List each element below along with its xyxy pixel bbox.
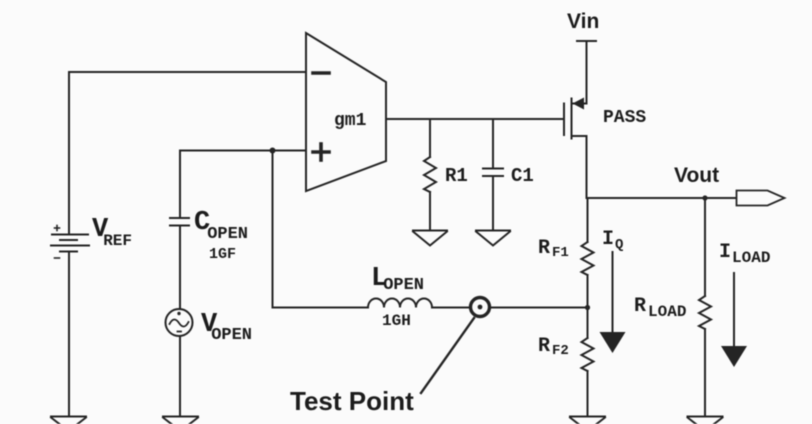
svg-text:1GH: 1GH — [382, 312, 411, 330]
wire op-amp output — [386, 118, 564, 120]
ground (R_F2) — [570, 417, 605, 424]
svg-text:C1: C1 — [511, 165, 534, 187]
current arrow I_Q — [600, 252, 626, 353]
ground (V_REF) — [51, 417, 86, 424]
wire R_LOAD to ground — [704, 329, 706, 416]
source V_OPEN — [166, 309, 193, 336]
svg-text:Test Point: Test Point — [290, 386, 414, 416]
wire R_F2 to ground — [587, 371, 589, 416]
wire junction down to L_OPEN row — [272, 151, 274, 308]
transistor Q PASS (PMOS) — [564, 98, 587, 199]
resistor R1 — [424, 157, 436, 192]
wire L_OPEN row left segment — [273, 307, 369, 309]
battery V_REF — [51, 226, 89, 259]
connector Vout — [737, 191, 785, 206]
svg-text:gm1: gm1 — [334, 111, 367, 131]
wire C_OPEN column upper — [179, 151, 181, 218]
wire test point to R_F divider — [490, 307, 588, 309]
svg-text:VOPEN: VOPEN — [201, 310, 252, 345]
wire C1 column upper — [492, 119, 494, 168]
svg-text:LOPEN: LOPEN — [371, 264, 424, 295]
svg-text:VREF: VREF — [92, 215, 132, 250]
svg-text:ILOAD: ILOAD — [719, 241, 770, 267]
svg-text:Vin: Vin — [567, 10, 599, 33]
svg-text:Vout: Vout — [674, 164, 719, 187]
wire L_OPEN to test point — [432, 307, 469, 309]
ground (C1) — [476, 231, 510, 246]
svg-text:RF2: RF2 — [538, 335, 569, 359]
inductor L_OPEN — [368, 299, 432, 308]
resistor R_F1 — [582, 242, 594, 275]
Vin terminal bar — [577, 40, 596, 42]
wire minus-input horizontal — [69, 71, 306, 73]
wire C_OPEN to V_OPEN — [179, 226, 181, 309]
svg-text:RF1: RF1 — [538, 237, 569, 261]
wire left vertical down to battery — [68, 72, 70, 234]
wire V_OPEN to ground — [179, 336, 181, 416]
node A junction dot on plus wire — [270, 148, 276, 154]
svg-text:RLOAD: RLOAD — [634, 295, 686, 321]
svg-text:1GF: 1GF — [209, 246, 236, 263]
wire C1 to ground — [492, 176, 494, 230]
current arrow I_LOAD — [721, 273, 747, 367]
test point circle — [471, 298, 490, 317]
op-amp minus sign — [313, 71, 329, 75]
wire R_F1 column upper — [587, 198, 589, 242]
ground (R1) — [413, 231, 447, 246]
ground (R_LOAD) — [688, 417, 723, 424]
wire Vout horizontal — [587, 197, 737, 199]
resistor R_F2 — [582, 338, 594, 371]
test point leader line — [421, 318, 474, 393]
wire plus-input horizontal — [180, 150, 306, 152]
svg-text:COPEN: COPEN — [194, 208, 248, 244]
op-amp U1 gm1 trapezoid — [306, 33, 386, 191]
wire R1 to ground — [429, 192, 431, 230]
wire R_LOAD column upper — [704, 198, 706, 296]
capacitor C_OPEN — [170, 218, 189, 226]
wire R1 column upper — [429, 119, 431, 157]
resistor R_LOAD — [699, 296, 711, 329]
ground (V_OPEN) — [163, 417, 198, 424]
capacitor C1 — [483, 169, 503, 177]
node Vout junction dot — [702, 195, 707, 200]
svg-text:PASS: PASS — [603, 108, 646, 128]
op-amp plus sign — [313, 144, 329, 160]
wire R_F1 to junction — [587, 275, 589, 338]
svg-text:R1: R1 — [445, 165, 468, 187]
wire Vin to PASS source — [586, 41, 588, 104]
svg-text:IQ: IQ — [602, 228, 623, 253]
node feedback junction dot — [585, 305, 590, 310]
wire battery to ground — [68, 252, 70, 417]
